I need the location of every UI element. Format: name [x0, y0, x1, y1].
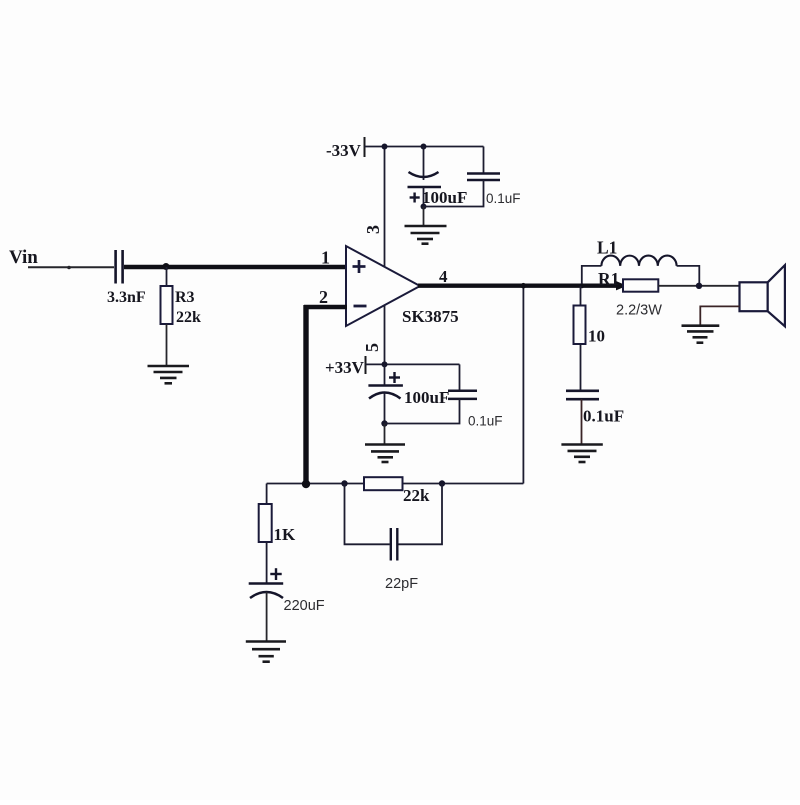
node rail/pin5: [382, 361, 388, 367]
inductor L1: [601, 256, 676, 266]
op-amp minus input mark: [354, 305, 367, 308]
capacitor 100uF (-33V) straight plate: [408, 186, 442, 189]
wire L1 right branch: [677, 266, 700, 286]
op-amp plus input mark: [353, 260, 366, 273]
wire output pin 4 (thick): [418, 284, 619, 288]
svg-text:Vin: Vin: [9, 247, 38, 268]
supply tick -33V: [364, 137, 366, 157]
svg-text:+33V: +33V: [325, 358, 365, 377]
node rail/pin3: [382, 144, 388, 150]
capacitor 220uF straight plate: [249, 582, 284, 585]
wire 0.1uF branch (+33V): [459, 364, 461, 390]
wire -33V rail: [365, 146, 484, 148]
wire feedback vertical from output: [522, 286, 524, 484]
svg-text:22k: 22k: [403, 486, 430, 505]
ground (Zobel): [561, 445, 602, 463]
svg-text:2: 2: [319, 287, 328, 307]
node 100uF/0.1uF junction: [421, 204, 427, 210]
wire L1 left branch: [582, 266, 602, 284]
svg-text:2.2/3W: 2.2/3W: [616, 303, 662, 319]
wire node to ground (+33V): [384, 424, 386, 445]
wire rail to 100uF cap: [423, 147, 425, 181]
capacitor 100uF (+33V) straight plate: [368, 384, 403, 387]
svg-text:22k: 22k: [176, 309, 201, 326]
wire 10 to 0.1uF: [580, 344, 582, 391]
node 100uF/0.1uF junction (+33V): [381, 420, 387, 426]
wire input to pin 1 (thick): [124, 265, 347, 270]
wire R1 to speaker: [658, 285, 739, 287]
ground (-33V caps): [405, 226, 447, 244]
ground (220uF): [246, 642, 286, 662]
polarity plus (-33V cap): [410, 193, 420, 203]
op-amp U1 SK3875: [346, 246, 420, 326]
svg-text:1: 1: [321, 248, 330, 268]
svg-text:3.3nF: 3.3nF: [107, 289, 146, 306]
polarity plus (220uF): [270, 568, 281, 580]
capacitor 22pF: [391, 528, 398, 561]
wire R3 to ground: [166, 324, 168, 366]
wire 220uF to ground: [266, 592, 268, 642]
wire +33V rail: [366, 363, 460, 365]
resistor 22k feedback: [364, 477, 403, 490]
wire 22pF right rise: [398, 484, 442, 545]
node output/feedback: [521, 283, 527, 289]
wire node to ground: [423, 207, 425, 227]
capacitor 100uF (-33V) curved plate: [409, 172, 439, 177]
svg-text:4: 4: [439, 267, 448, 286]
svg-text:22pF: 22pF: [385, 576, 418, 592]
supply tick +33V: [365, 356, 367, 374]
capacitor 220uF curved plate: [250, 592, 283, 598]
ground (below R3): [148, 366, 190, 383]
wire 22pF left drop: [345, 484, 390, 545]
wire feedback horizontal: [267, 483, 524, 485]
wire node to R3: [166, 267, 168, 286]
svg-text:R3: R3: [175, 289, 195, 306]
node junction input/R3: [163, 263, 170, 270]
svg-text:0.1uF: 0.1uF: [468, 414, 503, 429]
resistor 10: [574, 306, 586, 345]
resistor 1K: [259, 504, 272, 542]
wire Zobel branch down: [580, 286, 582, 306]
ground (speaker): [682, 326, 720, 343]
node output/L1 branch: [579, 283, 584, 288]
svg-text:0.1uF: 0.1uF: [486, 191, 521, 206]
wire 0.1uF to ground (Zobel): [581, 399, 583, 444]
ground (+33V caps): [365, 445, 405, 463]
svg-text:R1: R1: [598, 269, 619, 289]
svg-text:5: 5: [362, 343, 382, 352]
polarity plus (+33V cap): [389, 372, 400, 383]
resistor R3: [161, 286, 173, 324]
wire pin 2 horizontal (thick): [304, 305, 347, 310]
wire 1K to 220uF: [266, 542, 268, 584]
svg-text:0.1uF: 0.1uF: [583, 407, 624, 426]
svg-text:100uF: 100uF: [404, 388, 449, 407]
node feedback/22pF right: [439, 480, 445, 486]
svg-text:SK3875: SK3875: [402, 307, 459, 326]
svg-text:-33V: -33V: [326, 141, 362, 160]
svg-text:100uF: 100uF: [422, 188, 467, 207]
svg-text:3: 3: [363, 225, 383, 234]
node feedback/pin2: [302, 480, 310, 488]
wire feedback to 1K: [266, 484, 268, 505]
node rail/100uF: [421, 144, 427, 150]
svg-text:220uF: 220uF: [284, 598, 325, 614]
svg-text:L1: L1: [597, 238, 617, 258]
wire 100uF to node: [423, 187, 425, 207]
wire 0.1uF branch down: [483, 147, 485, 174]
node small dot on input wire: [67, 266, 71, 270]
wire Vin input: [28, 266, 114, 268]
wire speaker return: [700, 306, 739, 325]
wire rail to 100uF cap: [384, 364, 386, 385]
capacitor 0.1uF (+33V): [448, 391, 477, 399]
node R1/L1/speaker: [696, 283, 702, 289]
svg-text:10: 10: [588, 327, 605, 346]
wire 0.1uF bottom: [424, 180, 484, 207]
wire 0.1uF bottom (+33V): [385, 399, 460, 424]
speaker horn: [768, 265, 785, 326]
node feedback/22pF left: [341, 480, 347, 486]
wire pin 2 vertical to feedback (thick): [303, 305, 308, 482]
svg-text:1K: 1K: [274, 525, 297, 544]
capacitor 100uF (+33V) curved plate: [369, 393, 401, 399]
capacitor 3.3nF input coupling: [116, 250, 123, 284]
wire 100uF to node: [384, 393, 386, 424]
wire pin 3 from -33V rail: [384, 147, 386, 267]
arrowhead into R1: [616, 281, 627, 290]
capacitor 0.1uF (Zobel): [566, 391, 599, 399]
speaker body: [740, 282, 768, 311]
capacitor 0.1uF (-33V): [467, 174, 500, 181]
wire pin 5 to +33V rail: [384, 306, 386, 365]
resistor R1: [623, 279, 658, 291]
